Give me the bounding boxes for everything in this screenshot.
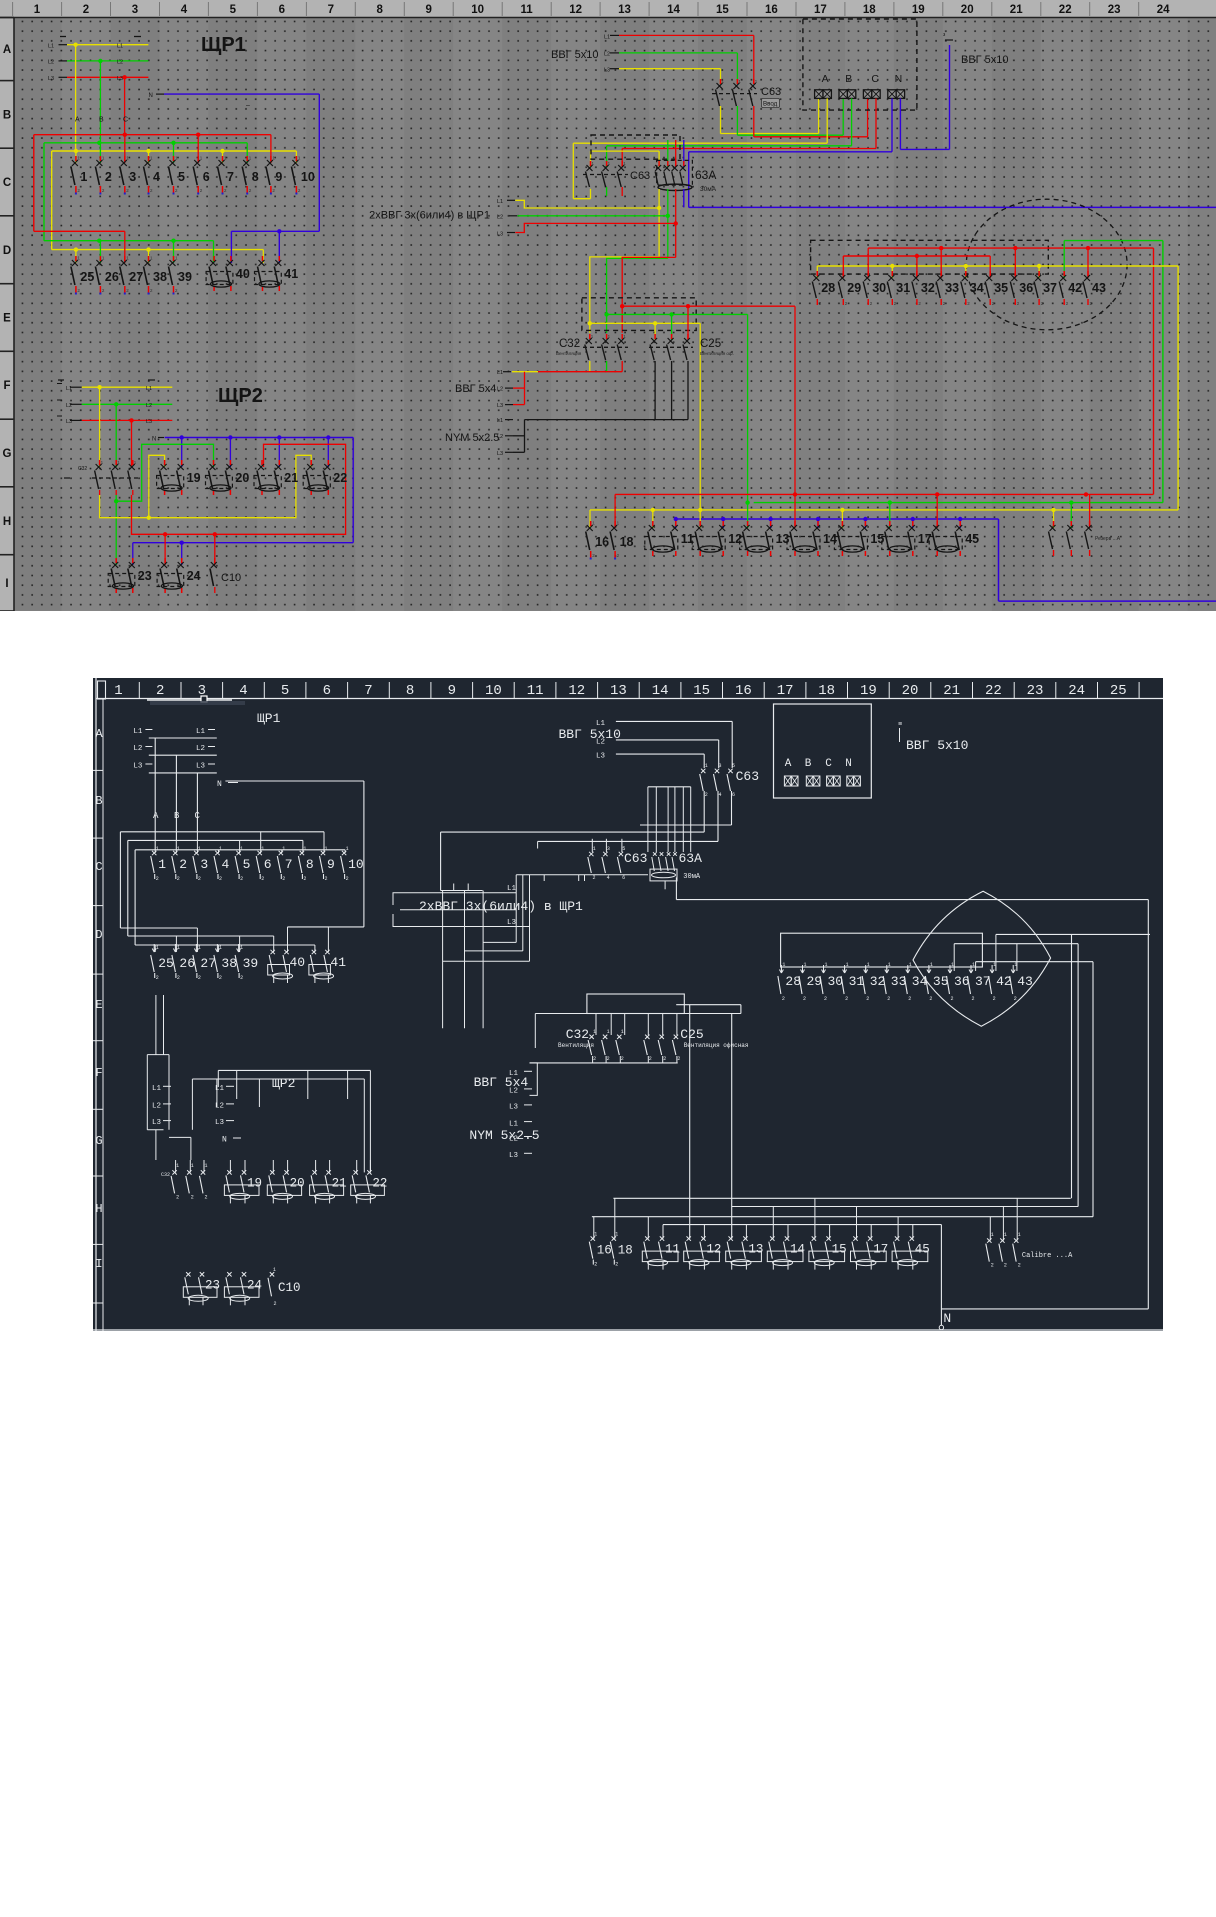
svg-text:22: 22 [333,471,347,485]
svg-text:5: 5 [178,170,185,184]
svg-text:8: 8 [306,857,314,872]
svg-text:L1: L1 [48,44,54,50]
svg-text:13: 13 [748,1243,763,1257]
svg-text:4: 4 [181,4,188,16]
svg-text:1: 1 [156,945,159,951]
svg-text:43: 43 [1017,974,1033,989]
svg-text:63А: 63А [679,851,703,866]
svg-text:19: 19 [912,4,925,16]
svg-text:2: 2 [845,996,848,1002]
svg-text:26: 26 [179,956,195,971]
svg-text:39: 39 [178,270,192,284]
svg-text:L1: L1 [152,1085,162,1093]
svg-text:1: 1 [1018,1232,1021,1238]
svg-text:16: 16 [765,4,778,16]
svg-text:5: 5 [732,763,735,769]
svg-text:2: 2 [803,996,806,1002]
svg-text:21: 21 [284,471,298,485]
svg-text:ЩР2: ЩР2 [218,385,263,407]
svg-text:24: 24 [247,1278,262,1292]
svg-text:32: 32 [921,281,935,295]
svg-text:1: 1 [621,1029,624,1035]
svg-text:F: F [3,380,10,392]
svg-text:2: 2 [621,1056,624,1062]
svg-text:C32: C32 [566,1027,589,1042]
svg-text:11: 11 [521,4,534,16]
svg-text:L2: L2 [509,1088,518,1096]
svg-text:1: 1 [888,962,891,968]
svg-text:2: 2 [972,996,975,1002]
svg-text:15: 15 [716,4,729,16]
svg-text:24: 24 [1068,683,1085,699]
svg-text:2: 2 [593,1056,596,1062]
svg-text:45: 45 [915,1243,930,1257]
svg-text:13: 13 [618,4,631,16]
svg-text:2: 2 [156,876,159,882]
svg-text:L3: L3 [152,1119,162,1127]
svg-text:C10: C10 [221,572,241,584]
svg-text:4: 4 [222,857,230,872]
svg-text:2: 2 [593,875,596,881]
svg-text:2: 2 [705,792,708,798]
svg-text:39: 39 [243,956,259,971]
svg-text:ВВГ 5х10: ВВГ 5х10 [961,54,1009,66]
svg-text:C10: C10 [278,1281,301,1295]
svg-text:1: 1 [156,846,159,852]
svg-text:38: 38 [153,270,167,284]
svg-text:41: 41 [330,955,346,970]
svg-text:N: N [222,1136,227,1145]
svg-text:1: 1 [261,846,264,852]
svg-text:1: 1 [825,962,828,968]
svg-text:A: A [822,73,829,85]
svg-text:1: 1 [176,1163,179,1169]
svg-text:L3: L3 [196,763,206,771]
svg-text:1: 1 [594,1232,597,1238]
svg-text:20: 20 [235,471,249,485]
svg-text:1: 1 [219,846,222,852]
svg-text:1: 1 [282,846,285,852]
svg-text:9: 9 [327,857,335,872]
svg-text:35: 35 [994,281,1008,295]
svg-text:Резерв ...А: Резерв ...А [1095,536,1121,542]
svg-text:2: 2 [156,683,164,699]
svg-text:I: I [5,578,8,590]
svg-text:1: 1 [846,962,849,968]
svg-text:2: 2 [346,876,349,882]
svg-text:2: 2 [240,876,243,882]
svg-text:1: 1 [993,962,996,968]
svg-text:10: 10 [471,4,484,16]
svg-text:18: 18 [618,1244,633,1258]
svg-text:14: 14 [790,1243,805,1257]
svg-text:L2: L2 [509,1136,518,1144]
svg-text:16: 16 [735,683,752,699]
svg-text:14: 14 [667,4,680,16]
svg-text:1: 1 [593,846,596,852]
svg-text:L2: L2 [196,745,205,753]
svg-text:34: 34 [970,281,984,295]
svg-text:6: 6 [622,875,625,881]
svg-text:ЩР1: ЩР1 [201,34,246,56]
svg-text:27: 27 [200,956,216,971]
svg-text:1: 1 [240,846,243,852]
svg-text:18: 18 [863,4,876,16]
svg-text:1: 1 [909,962,912,968]
svg-text:L1: L1 [604,35,610,41]
svg-text:Вентиляция офисная: Вентиляция офисная [684,1042,749,1049]
svg-text:1: 1 [607,1029,610,1035]
svg-text:L3: L3 [604,68,610,74]
svg-text:L3: L3 [507,919,517,927]
svg-text:1: 1 [346,846,349,852]
svg-text:C: C [871,73,879,85]
svg-text:N: N [845,758,852,770]
svg-text:12: 12 [568,683,585,699]
svg-text:1: 1 [205,1163,208,1169]
svg-text:L2: L2 [596,739,605,747]
svg-text:2: 2 [1014,996,1017,1002]
svg-text:5: 5 [281,683,289,699]
svg-text:3: 3 [200,857,208,872]
svg-text:1: 1 [219,945,222,951]
svg-text:6: 6 [732,792,735,798]
svg-text:1: 1 [1014,962,1017,968]
svg-text:≡: ≡ [898,721,902,729]
svg-text:L3: L3 [133,763,143,771]
svg-text:31: 31 [896,281,910,295]
svg-text:2: 2 [325,876,328,882]
svg-text:20: 20 [290,1176,305,1190]
svg-text:17: 17 [814,4,827,16]
svg-text:15: 15 [832,1243,847,1257]
svg-text:2: 2 [908,996,911,1002]
svg-text:10: 10 [348,857,364,872]
svg-text:42: 42 [1068,281,1082,295]
svg-text:5: 5 [230,4,237,16]
svg-text:19: 19 [187,471,201,485]
svg-text:4: 4 [719,792,722,798]
svg-text:Ввод: Ввод [763,101,778,108]
svg-text:ВВГ 5х4: ВВГ 5х4 [455,383,496,395]
svg-text:2: 2 [594,1262,597,1268]
svg-text:22: 22 [1059,4,1072,16]
svg-text:29: 29 [847,281,861,295]
svg-text:1: 1 [991,1232,994,1238]
svg-text:1: 1 [191,1163,194,1169]
svg-text:8: 8 [406,683,414,699]
svg-text:9: 9 [275,170,282,184]
svg-text:1: 1 [198,846,201,852]
svg-text:4: 4 [239,683,247,699]
svg-text:63А: 63А [695,168,716,182]
svg-text:Вентиляция оф.: Вентиляция оф. [700,351,734,356]
svg-text:N: N [217,780,222,789]
svg-text:2: 2 [1018,1263,1021,1269]
svg-text:2: 2 [179,857,187,872]
svg-text:2: 2 [198,876,201,882]
svg-text:L2: L2 [66,403,72,409]
svg-text:40: 40 [290,955,306,970]
svg-text:1: 1 [951,962,954,968]
svg-text:2: 2 [205,1194,208,1200]
svg-text:13: 13 [610,683,627,699]
svg-text:C25: C25 [680,1027,703,1042]
svg-text:F: F [95,1066,102,1080]
svg-text:C63: C63 [624,851,647,866]
svg-text:L3: L3 [215,1119,225,1127]
svg-text:5: 5 [243,857,251,872]
svg-text:B: B [845,73,852,85]
svg-text:2: 2 [177,975,180,981]
svg-text:22: 22 [372,1176,387,1190]
svg-text:6: 6 [323,683,331,699]
svg-text:E: E [3,313,11,325]
svg-text:E: E [95,998,102,1012]
svg-text:16: 16 [595,535,609,549]
svg-text:23: 23 [1108,4,1121,16]
svg-text:2: 2 [274,1301,277,1307]
svg-text:C: C [3,177,11,189]
svg-text:1: 1 [198,945,201,951]
svg-text:2: 2 [219,975,222,981]
svg-text:L3: L3 [596,753,606,761]
svg-text:D: D [95,928,102,942]
svg-text:18: 18 [818,683,835,699]
svg-text:23: 23 [138,569,152,583]
svg-text:37: 37 [1043,281,1057,295]
svg-text:L1: L1 [497,418,503,424]
svg-text:1: 1 [972,962,975,968]
svg-text:1: 1 [593,1029,596,1035]
svg-text:L1: L1 [196,728,206,736]
svg-text:H: H [95,1202,102,1216]
svg-text:L2: L2 [133,745,142,753]
svg-text:C32: C32 [559,338,580,350]
svg-text:N: N [152,437,156,443]
svg-text:L1: L1 [66,386,72,392]
svg-text:1: 1 [705,763,708,769]
svg-text:10: 10 [301,170,315,184]
svg-text:14: 14 [652,683,669,699]
svg-text:1: 1 [1004,1232,1007,1238]
svg-text:B: B [3,109,11,121]
svg-text:1: 1 [80,170,87,184]
svg-text:3: 3 [719,763,722,769]
svg-text:25: 25 [158,956,174,971]
svg-text:L1: L1 [509,1121,519,1129]
svg-text:1: 1 [158,857,166,872]
svg-text:17: 17 [873,1243,888,1257]
svg-text:30: 30 [872,281,886,295]
svg-text:B: B [99,117,104,124]
svg-text:2: 2 [303,876,306,882]
svg-text:L3: L3 [117,76,123,82]
svg-text:2: 2 [176,1194,179,1200]
svg-text:21: 21 [332,1176,347,1190]
svg-text:7: 7 [364,683,372,699]
svg-text:C32: C32 [161,1172,170,1178]
svg-text:3: 3 [132,4,138,16]
svg-text:N: N [943,1311,951,1326]
svg-text:A: A [785,758,792,770]
svg-text:12: 12 [706,1243,721,1257]
svg-text:2: 2 [615,1262,618,1268]
svg-text:L1: L1 [117,44,123,50]
svg-text:D: D [3,245,11,257]
svg-text:7: 7 [285,857,293,872]
svg-text:20: 20 [961,4,974,16]
svg-text:20: 20 [902,683,919,699]
svg-text:B: B [174,811,180,821]
svg-text:2: 2 [219,876,222,882]
svg-text:N: N [895,73,903,85]
svg-text:2: 2 [1004,1263,1007,1269]
svg-text:2: 2 [991,1263,994,1269]
svg-text:16: 16 [597,1244,612,1258]
svg-text:1: 1 [303,846,306,852]
svg-text:45: 45 [965,532,979,546]
svg-text:43: 43 [1092,281,1106,295]
svg-text:33: 33 [945,281,959,295]
svg-text:ВВГ 5х10: ВВГ 5х10 [906,738,968,753]
svg-text:C: C [123,117,128,124]
svg-text:1: 1 [240,945,243,951]
svg-text:2: 2 [282,876,285,882]
svg-text:26: 26 [105,270,119,284]
svg-text:2: 2 [824,996,827,1002]
svg-text:4: 4 [607,875,610,881]
svg-text:Calibre ...A: Calibre ...A [1022,1252,1073,1260]
svg-text:3: 3 [129,170,136,184]
svg-text:2: 2 [198,975,201,981]
svg-text:1: 1 [804,962,807,968]
svg-text:L2: L2 [152,1103,161,1111]
svg-text:Вентиляция: Вентиляция [556,351,582,356]
svg-text:2: 2 [177,876,180,882]
svg-text:2: 2 [156,975,159,981]
svg-text:C63: C63 [761,86,781,98]
svg-text:B: B [95,794,102,808]
svg-text:L2: L2 [146,403,152,409]
svg-text:1: 1 [930,962,933,968]
svg-text:23: 23 [1027,683,1044,699]
svg-text:A: A [153,811,159,821]
svg-text:1: 1 [867,962,870,968]
svg-text:2: 2 [993,996,996,1002]
svg-text:15: 15 [693,683,710,699]
svg-text:A: A [95,727,103,741]
svg-text:ВВГ 5х4: ВВГ 5х4 [474,1075,529,1090]
svg-text:G: G [95,1134,102,1148]
svg-text:B: B [805,758,812,770]
svg-text:4: 4 [153,170,160,184]
svg-text:10: 10 [485,683,502,699]
svg-text:A: A [75,117,80,124]
svg-text:24: 24 [187,569,201,583]
svg-text:11: 11 [527,683,544,699]
svg-text:9: 9 [425,4,431,16]
svg-text:2: 2 [191,1194,194,1200]
svg-text:C: C [95,860,102,874]
svg-text:1: 1 [34,4,41,16]
svg-text:8: 8 [252,170,259,184]
svg-text:28: 28 [821,281,835,295]
svg-text:C: C [825,758,832,770]
svg-text:C63: C63 [630,170,650,182]
svg-text:30мА: 30мА [700,186,717,193]
svg-text:23: 23 [205,1278,220,1292]
svg-text:2: 2 [607,1056,610,1062]
svg-text:2: 2 [951,996,954,1002]
svg-text:27: 27 [129,270,143,284]
svg-text:L2: L2 [117,60,123,66]
svg-text:L3: L3 [509,1104,519,1112]
svg-text:1: 1 [177,945,180,951]
svg-text:12: 12 [569,4,582,16]
svg-text:L2: L2 [604,52,610,58]
svg-text:N: N [149,93,153,99]
svg-text:2: 2 [663,1056,666,1062]
svg-text:L2: L2 [497,215,503,221]
svg-text:L2: L2 [48,60,54,66]
svg-text:L3: L3 [497,232,503,238]
svg-text:ЩР1: ЩР1 [257,711,281,726]
svg-text:2: 2 [782,996,785,1002]
svg-text:C32: C32 [78,466,87,472]
svg-text:2хВВГ 3х(6или4) в ЩР1: 2хВВГ 3х(6или4) в ЩР1 [369,210,490,222]
svg-text:2: 2 [83,4,89,16]
svg-text:8: 8 [376,4,383,16]
svg-text:18: 18 [620,535,634,549]
svg-text:A: A [3,44,11,56]
svg-text:22: 22 [985,683,1002,699]
svg-text:C: C [195,811,201,821]
svg-text:1: 1 [114,683,122,699]
svg-text:24: 24 [1157,4,1170,16]
svg-text:1: 1 [273,1267,276,1273]
svg-text:21: 21 [943,683,960,699]
svg-text:3: 3 [607,846,610,852]
svg-text:19: 19 [860,683,877,699]
svg-text:17: 17 [777,683,794,699]
svg-text:C63: C63 [736,769,759,784]
svg-text:L1: L1 [133,728,143,736]
svg-text:1: 1 [177,846,180,852]
svg-text:G: G [3,448,12,460]
svg-text:L3: L3 [509,1152,519,1160]
svg-text:L3: L3 [48,76,54,82]
svg-text:6: 6 [279,4,285,16]
svg-text:25: 25 [1110,683,1127,699]
svg-text:38: 38 [221,956,237,971]
svg-text:L1: L1 [497,199,503,205]
svg-text:I: I [95,1257,102,1271]
svg-text:L3: L3 [146,419,152,425]
svg-text:L1: L1 [497,370,503,376]
svg-text:36: 36 [1019,281,1033,295]
svg-text:1: 1 [325,846,328,852]
svg-text:ЩР2: ЩР2 [272,1076,295,1091]
svg-text:L1: L1 [146,386,152,392]
svg-text:L1: L1 [507,885,517,893]
svg-text:L2: L2 [215,1103,224,1111]
svg-text:L3: L3 [497,451,503,457]
svg-text:NYM 5х2.5: NYM 5х2.5 [469,1128,539,1143]
svg-text:11: 11 [665,1243,680,1257]
svg-text:2: 2 [105,170,112,184]
svg-text:7: 7 [328,4,334,16]
